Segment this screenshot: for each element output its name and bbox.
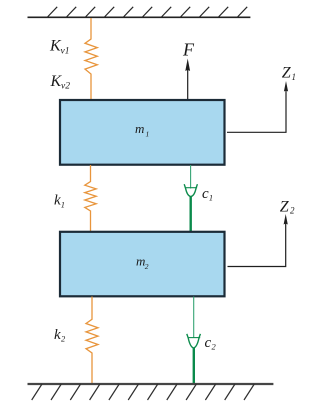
svg-text:1: 1: [61, 200, 65, 210]
spring k1: [85, 165, 96, 232]
ground hatch marks: [32, 384, 255, 400]
svg-text:v2: v2: [61, 82, 70, 92]
damper c2: [187, 297, 201, 385]
ground line: [28, 383, 274, 385]
svg-text:2: 2: [145, 262, 149, 271]
svg-text:1: 1: [292, 72, 297, 82]
svg-text:2: 2: [212, 342, 217, 352]
displacement arrow Z2: [228, 222, 286, 267]
ceiling hatch marks: [47, 7, 247, 18]
damper c1: [184, 165, 197, 232]
svg-text:2: 2: [290, 206, 295, 216]
force arrow F: [187, 69, 189, 100]
svg-text:1: 1: [209, 192, 213, 202]
svg-text:2: 2: [61, 334, 66, 344]
svg-text:v1: v1: [61, 47, 70, 57]
ceiling support line: [28, 16, 251, 18]
displacement arrow Z1: [227, 89, 286, 132]
spring k2: [86, 297, 98, 385]
svg-text:Z: Z: [282, 65, 292, 82]
mass m1: [60, 100, 225, 165]
svg-text:c: c: [205, 335, 212, 351]
mass m2: [60, 232, 225, 296]
svg-text:F: F: [182, 40, 195, 60]
spring Kv (top suspension spring): [85, 18, 97, 100]
svg-text:Z: Z: [280, 198, 290, 215]
svg-text:1: 1: [146, 129, 150, 138]
svg-text:m: m: [135, 121, 144, 136]
svg-text:k: k: [54, 327, 61, 343]
